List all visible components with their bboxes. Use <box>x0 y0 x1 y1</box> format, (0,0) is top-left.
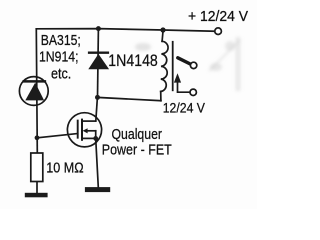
svg-text:10 MΩ: 10 MΩ <box>46 161 83 177</box>
svg-text:+ 12/24 V: + 12/24 V <box>188 8 248 25</box>
svg-text:Power - FET: Power - FET <box>102 142 172 159</box>
svg-text:12/24 V: 12/24 V <box>163 99 206 115</box>
svg-text:etc.: etc. <box>51 66 71 83</box>
svg-text:1N914;: 1N914; <box>39 49 79 66</box>
svg-text:BA315;: BA315; <box>41 32 81 49</box>
svg-text:1N4148: 1N4148 <box>108 51 158 70</box>
